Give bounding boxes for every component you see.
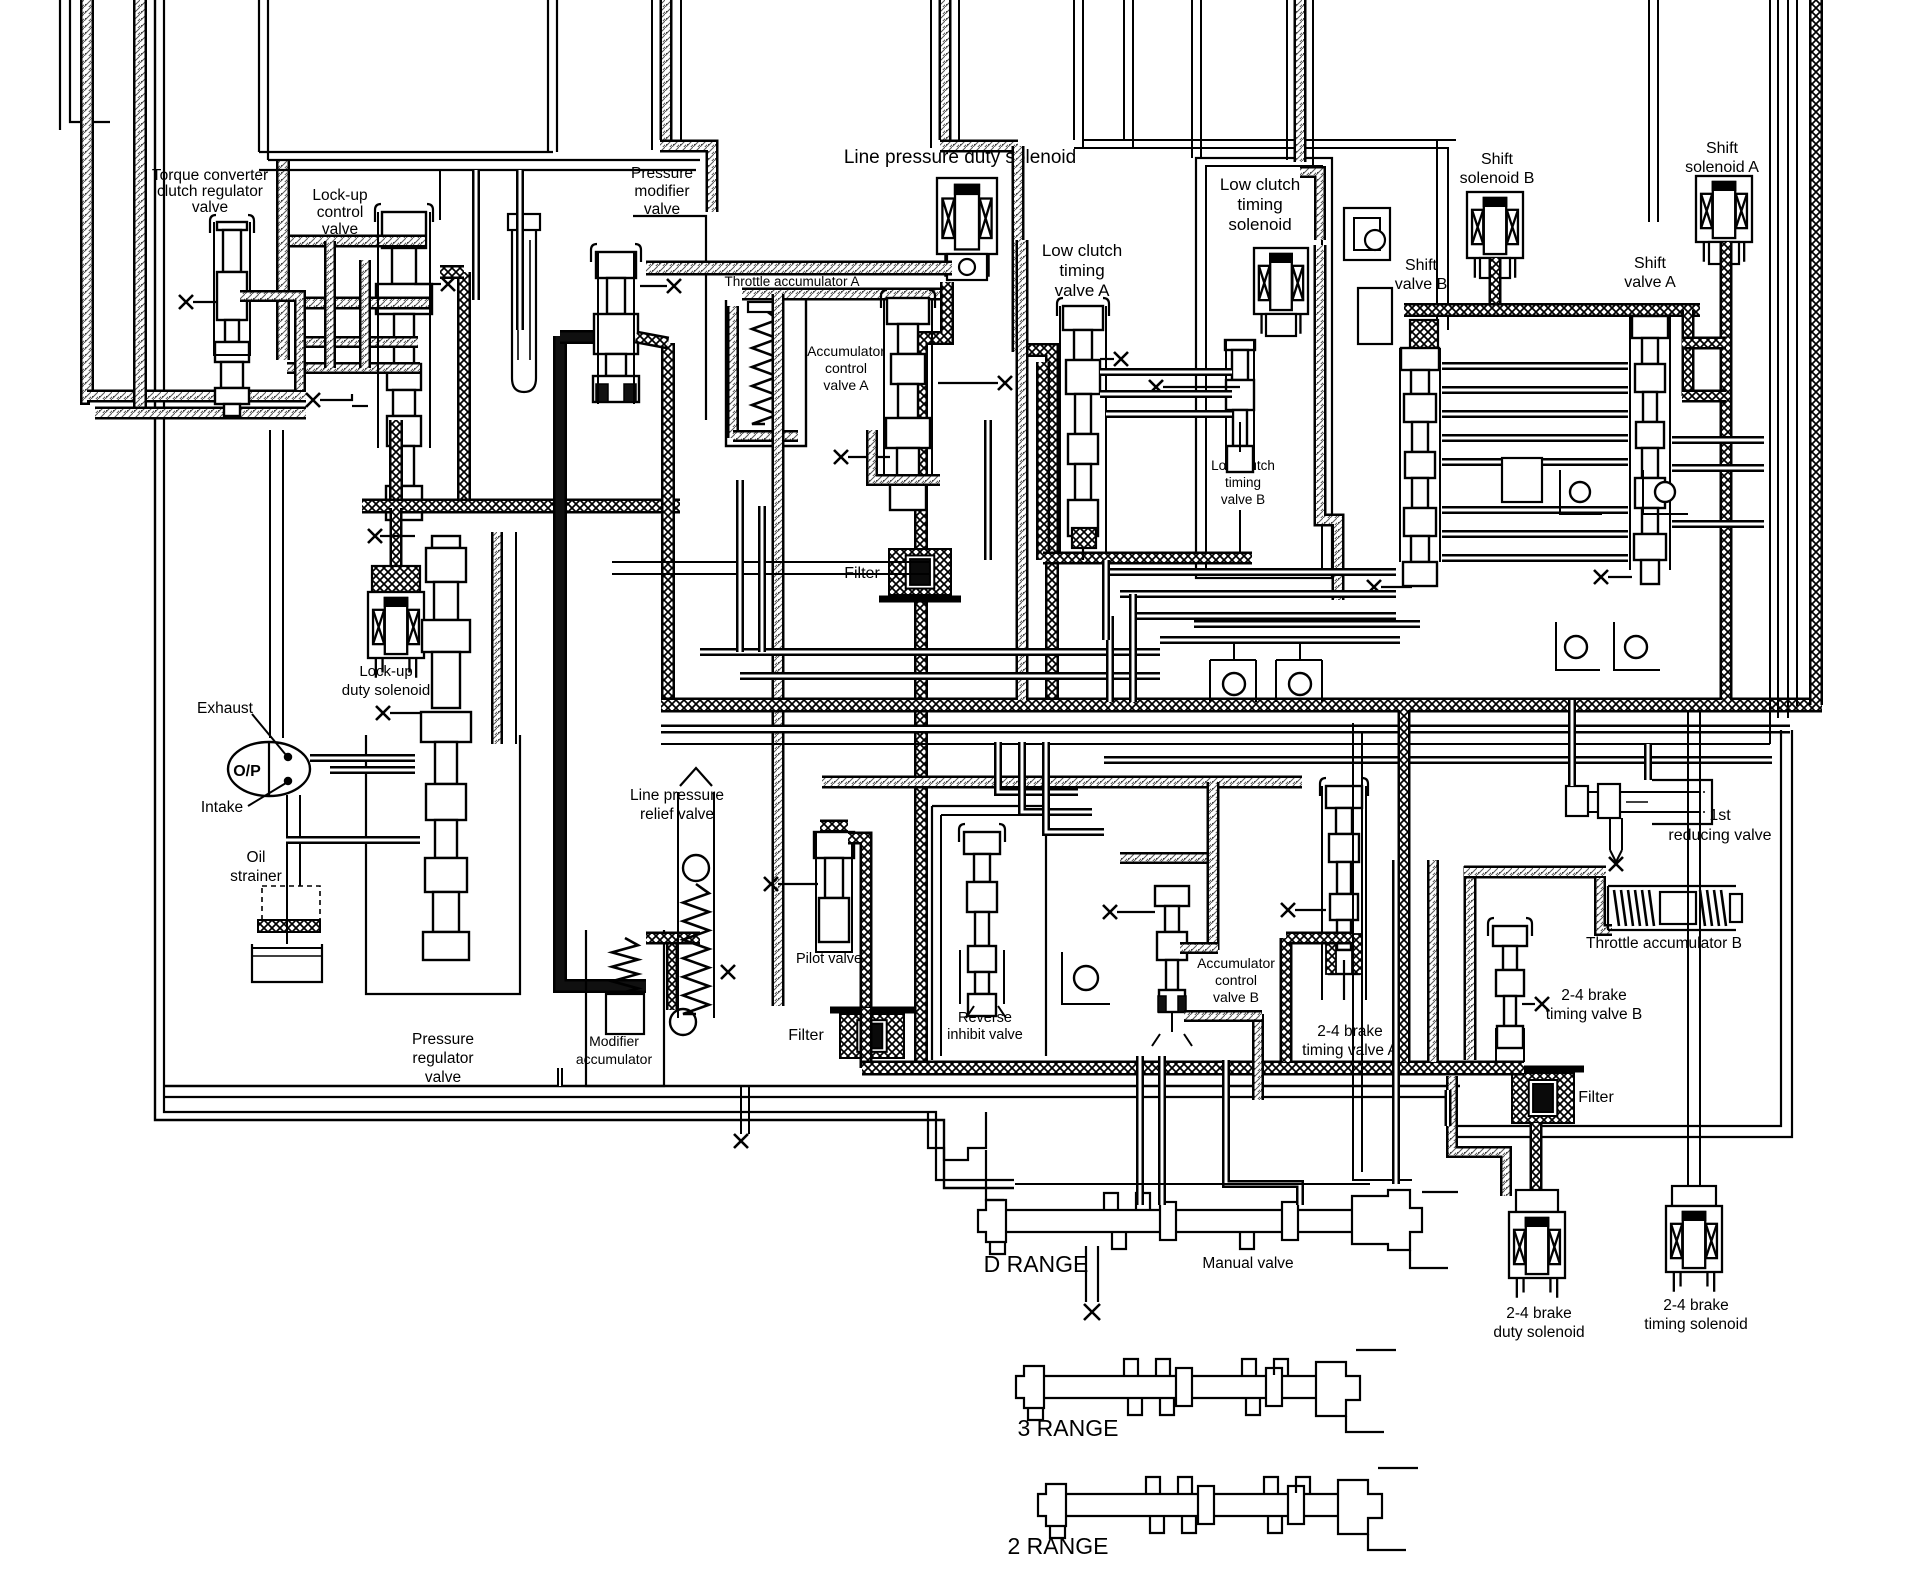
- pipe into duty solenoid top: [390, 560, 403, 576]
- pipe below top rail b: [472, 170, 480, 300]
- x mark below frame left: [734, 1134, 748, 1148]
- dark block below valve A: [1072, 528, 1096, 548]
- 2-4 brake duty solenoid fitting: [1516, 1190, 1558, 1212]
- black seat marks pressure modifier valve: [596, 384, 636, 402]
- wire 24A bore R: [1365, 786, 1367, 1000]
- pipe drop right of solenoid: [1012, 146, 1025, 352]
- pipe filter down: [860, 1008, 873, 1068]
- x mark right of acc valve A: [998, 376, 1012, 390]
- accumulator A piston cap: [748, 302, 782, 312]
- wire below lockup a: [282, 430, 284, 738]
- reverse inhibit bottom flare: [966, 1006, 1006, 1018]
- pipe riser into lock-up cluster: [276, 160, 290, 360]
- solenoid: 2-4 brake timing solenoid: [1666, 1206, 1722, 1292]
- pipe light vertical x1470: [1464, 866, 1477, 1060]
- svg-text:Throttle accumulator A: Throttle accumulator A: [724, 274, 859, 289]
- dark block above lock-up duty solenoid: [372, 566, 420, 592]
- pipe dark band y558: [1043, 552, 1252, 565]
- spring throttle accumulator A: [752, 310, 778, 424]
- pipe light band y782: [822, 776, 1302, 789]
- wire right frame outer: [1447, 730, 1781, 1126]
- wire ball box 4: [1614, 622, 1660, 670]
- wire pilot frame top a: [612, 561, 930, 563]
- manual valve right block: [1352, 1190, 1422, 1250]
- x mark shift valve B bottom: [1367, 580, 1381, 594]
- pipe left horizontal 2: [95, 407, 306, 420]
- 1st reducing valve right sleeve: [1652, 780, 1712, 824]
- pipe drop to manual valve b: [1158, 1056, 1166, 1205]
- solenoid: line pressure duty solenoid: [937, 178, 997, 277]
- pipe drop into band a: [1106, 616, 1114, 702]
- wire top rail b: [268, 159, 700, 161]
- pipe rung right 2: [1672, 464, 1764, 472]
- pipe rung shift 3: [1442, 410, 1628, 418]
- wire relief sleeve right: [713, 792, 715, 1018]
- pipe rung low c: [1134, 612, 1396, 620]
- wire 2-4B stem b: [1523, 1028, 1525, 1062]
- wire ball6 stem: [1299, 640, 1301, 660]
- pipe dark jog left: [1682, 310, 1695, 396]
- pipe rung lcA 2: [1100, 390, 1232, 398]
- valve: accumulator control valve A spool: [881, 290, 935, 308]
- throttle accumulator B body: [1608, 885, 1736, 887]
- wire top box bottom a: [259, 151, 553, 153]
- wire right frame inner: [1447, 730, 1792, 1137]
- wire ball box reverse: [1062, 952, 1110, 1004]
- pipe center drop a: [736, 480, 744, 652]
- wire pmod bore R: [633, 252, 635, 404]
- small fitting below frame: [928, 1112, 986, 1160]
- pipe dark shift solenoid A drop: [1720, 242, 1733, 700]
- x mark 2-4 brake A: [1281, 903, 1295, 917]
- wire above lockup: [439, 170, 441, 220]
- wire lockup bore L: [377, 212, 379, 448]
- solenoid: shift solenoid A: [1696, 176, 1752, 262]
- pipe elbow low clutch: [1300, 172, 1320, 240]
- check ball circle 5: [1223, 673, 1245, 695]
- valve: 3 RANGE left cap: [1016, 1366, 1044, 1408]
- wire flank riser 945 a: [930, 0, 932, 148]
- svg-text:Manual valve: Manual valve: [1202, 1255, 1293, 1272]
- plug cylinder (accumulator piston): [512, 228, 536, 392]
- pipe stub: [557, 1068, 563, 1086]
- small box between shift valves: [1502, 458, 1542, 502]
- x mark 1st reducing: [1609, 857, 1623, 871]
- valve: reverse inhibit valve spool: [959, 824, 1005, 842]
- valve: torque converter clutch regulator valve spool: [210, 215, 254, 233]
- pipe left horizontal 1: [87, 390, 306, 403]
- pipe rung shift 1: [1442, 362, 1628, 370]
- pipe dark into lock-up duty solenoid: [390, 508, 403, 560]
- wire top box left a: [258, 0, 260, 152]
- pipe dark mod acc top: [646, 932, 700, 945]
- solenoid: 2-4 brake duty solenoid: [1509, 1212, 1565, 1298]
- wire lcA bore R: [1105, 306, 1107, 556]
- wire ballbox5 b: [1255, 660, 1257, 702]
- pipe long dark band y705: [661, 698, 1822, 713]
- pipe lockup run 1: [290, 235, 425, 248]
- valve: low clutch timing valve A spool: [1057, 298, 1109, 316]
- check ball circle reverse area: [1074, 966, 1098, 990]
- wire pump to strainer 2: [299, 795, 301, 886]
- wire ballbox6 c: [1276, 659, 1322, 661]
- pipe lockup run 3: [300, 336, 418, 348]
- valve: 2 RANGE top stub 4: [1296, 1477, 1310, 1493]
- 2 RANGE right step lines: [1368, 1534, 1406, 1550]
- wire right of regulator: [515, 532, 517, 744]
- x exhaust mark tcc valve: [179, 295, 193, 309]
- svg-text:Pilot valve: Pilot valve: [796, 951, 862, 967]
- pipe dark drop x1404: [1398, 710, 1411, 1062]
- box reverse inhibit outer: [932, 805, 1046, 807]
- wire u-tube d: [1132, 0, 1134, 148]
- wire below lockup b: [269, 430, 271, 738]
- svg-text:Filter: Filter: [1578, 1089, 1614, 1106]
- pipe lockup run 2: [296, 297, 430, 310]
- wire u-tube b: [1082, 0, 1084, 148]
- valve: 2 RANGE bottom stub 1: [1150, 1517, 1164, 1533]
- pipe dark elbow top: [440, 265, 464, 279]
- pipe dark vertical x668: [661, 343, 675, 712]
- valve: 2 RANGE top stub 1: [1146, 1477, 1160, 1493]
- manual valve bottom stub 2: [1240, 1233, 1254, 1249]
- manual valve land 2: [1282, 1202, 1298, 1240]
- wire top stub x1658: [1657, 0, 1659, 222]
- pipe lockup vertical b: [359, 260, 371, 368]
- pipe center drop d: [1102, 560, 1110, 640]
- pipe light drop to acc B: [1207, 782, 1220, 950]
- valve: 3 RANGE bottom stub 1: [1128, 1399, 1142, 1415]
- wire drop to low clutch box a: [1191, 0, 1193, 158]
- valve: accumulator control valve B spool: [1155, 886, 1189, 1012]
- wire pump to strainer: [286, 795, 288, 944]
- wire fitting to manual valve: [986, 1150, 1004, 1200]
- wire lcA bore L: [1059, 306, 1061, 556]
- check ball circle 2: [1655, 482, 1675, 502]
- wire lockup bore R: [429, 212, 431, 448]
- wire below band 2: [661, 743, 1770, 745]
- wire drop to low clutch box b: [1200, 0, 1202, 158]
- wire low clutch valve B stem b: [1239, 510, 1241, 560]
- relief valve ball: [683, 855, 709, 881]
- dark blocks 2-4 brake timing valve A: [1326, 934, 1336, 974]
- pipe pump to preg 2: [330, 766, 415, 774]
- solenoid: shift solenoid B: [1467, 192, 1523, 278]
- manual valve bottom stub 1: [1112, 1233, 1126, 1249]
- pipe light acc B inlet: [1600, 878, 1612, 930]
- wire lcB bore R: [1253, 340, 1255, 470]
- pipe accA left wall: [727, 306, 739, 438]
- wire lcB bore L: [1225, 340, 1227, 470]
- wire ball box 2: [1643, 470, 1688, 514]
- x mark acc valve A: [834, 450, 848, 464]
- pipe rung low a: [1106, 568, 1396, 576]
- wire revinh bore L: [959, 950, 961, 1004]
- x mark preg mid: [376, 706, 390, 720]
- pipe light vertical x1022: [1016, 240, 1029, 700]
- wire right col a: [1769, 0, 1771, 744]
- solenoid A stem: [1709, 242, 1739, 264]
- pipe light acc B elbow: [1180, 942, 1218, 954]
- pump dots and callouts: [285, 754, 292, 761]
- 1st reducing valve stem: [1609, 818, 1611, 850]
- valve: shift valve B spool: [1401, 348, 1439, 586]
- pipe dark branch 2: [1682, 390, 1726, 403]
- pipe dark main center drop: [921, 282, 947, 1062]
- wire bottom rail outer: [164, 1085, 1460, 1087]
- pipe rung shift 7: [1442, 530, 1628, 538]
- staircase pipes above reverse valve: [998, 742, 1078, 792]
- solenoid lower fitting: [947, 254, 987, 280]
- oil strainer cup: [252, 944, 322, 982]
- 3 RANGE right block: [1316, 1362, 1360, 1416]
- wire ball box 1: [1560, 470, 1602, 514]
- pipe light band to acc B: [1464, 866, 1606, 879]
- pipe drop to manual valve a: [1136, 1056, 1144, 1205]
- wire ballbox5 a: [1209, 660, 1211, 702]
- wire pmod bore L: [597, 252, 599, 404]
- pipe light acc B drop2: [1252, 1014, 1264, 1100]
- x mark shift valve A bottom: [1594, 570, 1608, 584]
- pipe top elbow a: [940, 140, 1018, 153]
- wire ball box 3: [1556, 622, 1600, 670]
- wire 2-4B stem a: [1495, 1028, 1497, 1062]
- manual valve top stub 1: [1104, 1193, 1118, 1209]
- wire bottom-right frame left b: [1361, 732, 1363, 1172]
- x mark relief valve: [721, 965, 735, 979]
- throttle accumulator B end cap: [1730, 894, 1742, 922]
- pipe rung right 1: [1672, 436, 1764, 444]
- wire manual valve stem a: [1085, 1246, 1087, 1302]
- valve: 3 RANGE neck: [1044, 1375, 1316, 1377]
- wire flank riser 666 a: [651, 0, 653, 150]
- modifier accumulator box: [586, 930, 664, 1086]
- valve: pressure regulator valve lower: [421, 712, 471, 960]
- x mark pressure modifier: [667, 279, 681, 293]
- wire drop to shift valve B: [1436, 140, 1438, 330]
- pipe dark drop to band: [1018, 350, 1052, 708]
- pipe rung shift 5: [1442, 458, 1628, 466]
- x mark 2-4 brake B: [1535, 997, 1549, 1011]
- wire 24A bore L: [1321, 786, 1323, 1000]
- wire ballbox5 c: [1210, 659, 1256, 661]
- x mark lock-up valve lower-left: [306, 393, 320, 407]
- valve: 3 RANGE top stub 1: [1124, 1359, 1138, 1375]
- wire manual valve right step b: [1422, 1191, 1458, 1193]
- wire shift valve A sleeve L: [1629, 316, 1631, 570]
- pipe lockup run 5: [240, 296, 300, 390]
- valve: 3 RANGE land 2: [1266, 1368, 1282, 1406]
- wire manual valve right step a: [1410, 1250, 1448, 1268]
- pipe center drop b: [758, 506, 766, 652]
- wire u-tube c: [1123, 0, 1125, 140]
- wire preg top left: [380, 535, 415, 537]
- spring line pressure relief valve: [683, 884, 709, 1014]
- pipe dark band 2-4A: [1286, 932, 1352, 945]
- pipe dark drop 2-4A: [1280, 938, 1293, 1062]
- svg-text:3 RANGE: 3 RANGE: [1018, 1415, 1119, 1441]
- pipe into 1st reducing 2: [1644, 744, 1652, 780]
- x mark low clutch A right2: [1149, 380, 1163, 394]
- valve: 3 RANGE top stub 2: [1156, 1359, 1170, 1375]
- wire right col b: [1777, 0, 1779, 718]
- wire pilot frame top b: [612, 573, 930, 575]
- pipe left riser 1: [87, 0, 90, 398]
- pipe below top rail a: [516, 170, 524, 330]
- pipe into 1st reducing: [1568, 700, 1576, 786]
- valve: 2-4 brake timing valve B spool: [1488, 918, 1532, 936]
- box low clutch timing inner: [1206, 166, 1322, 570]
- solenoid: lock-up duty solenoid: [368, 592, 424, 678]
- oil strainer hatch bar: [258, 920, 320, 932]
- filter (bottom right): [1502, 1069, 1584, 1123]
- pipe dark band y1068: [862, 1061, 1524, 1076]
- wire top box left b: [267, 0, 269, 160]
- wire low clutch valve B stem a: [1239, 422, 1241, 452]
- x mark lock-up valve right: [441, 277, 455, 291]
- valve: 1st reducing valve (horizontal): [1566, 786, 1588, 816]
- box low clutch timing outer: [1196, 158, 1332, 578]
- pipe riser above modifier: [660, 0, 673, 140]
- pipe rung low b: [1120, 590, 1396, 598]
- dark block at shift valve B top: [1410, 320, 1438, 348]
- wire accB stem: [1171, 1012, 1173, 1032]
- wire ballbox6 a: [1275, 660, 1277, 702]
- small component above shift valve B: [1344, 208, 1390, 260]
- pipe dark band shift y310: [1404, 303, 1700, 317]
- pipe black top branch: [560, 330, 636, 344]
- valve: pressure modifier valve spool: [591, 244, 641, 262]
- x mark preg top: [368, 529, 382, 543]
- oil strainer dashed box: [262, 886, 320, 926]
- wire flank riser 945 b: [958, 0, 960, 140]
- wire ball5 stem: [1233, 640, 1235, 660]
- wire top-left stub b: [70, 0, 110, 122]
- wire 2-4A stem: [1343, 960, 1345, 1000]
- pipe dark from shift solenoid B: [1489, 258, 1502, 310]
- svg-text:Intake: Intake: [201, 799, 243, 816]
- pipe pump to preg: [310, 754, 415, 762]
- x mark low clutch A right: [1114, 352, 1128, 366]
- solenoid stem low clutch: [1266, 314, 1296, 336]
- wire to 2-4 timing solenoid a: [1687, 712, 1689, 1198]
- wire u-tube a: [1073, 0, 1075, 140]
- valve: 2 RANGE bottom stub 2: [1182, 1517, 1196, 1533]
- 3 RANGE right step lines: [1346, 1416, 1384, 1432]
- check ball circle 1: [1570, 482, 1590, 502]
- pipe drop into band b: [1129, 594, 1137, 702]
- pipe throttle accumulator A band: [646, 261, 952, 276]
- valve: 2-4 brake timing valve A spool: [1320, 778, 1368, 796]
- solenoid B stem: [1480, 258, 1510, 278]
- valve: lock-up control valve spool: [375, 204, 433, 222]
- pipe accA bottom wall: [733, 430, 798, 442]
- svg-text:Throttle accumulator B: Throttle accumulator B: [1586, 935, 1742, 952]
- wire shift valve A sleeve R: [1669, 316, 1671, 570]
- pipe riser low clutch: [1294, 0, 1307, 162]
- manual valve top stub 2: [1136, 1193, 1150, 1209]
- valve: shift valve A spool: [1632, 316, 1668, 584]
- pipe light drop right of low clutch box: [1320, 245, 1338, 600]
- wire relief valve peak: [680, 768, 712, 786]
- 2-4 brake timing solenoid fitting: [1672, 1186, 1716, 1206]
- filter (center): [830, 1010, 914, 1058]
- pipe dark below lock-up valve: [389, 420, 403, 508]
- pipe center rung b: [740, 672, 1160, 680]
- wire shift valve B sleeve L: [1399, 348, 1401, 562]
- wire bottom-right frame left a: [1353, 723, 1412, 1180]
- pipe acc A bottom elbow: [872, 430, 940, 480]
- wire bottom rail inner: [164, 1097, 1452, 1120]
- check ball circle 3: [1565, 636, 1587, 658]
- pipe stub 2: [1445, 1090, 1452, 1126]
- wire pressure modifier box: [633, 216, 706, 420]
- pipe rung lcA 1: [1100, 368, 1232, 376]
- wire flank riser 1300 b: [1312, 0, 1314, 166]
- pipe lockup run 4: [287, 362, 420, 374]
- valve: low clutch timing valve B spool: [1225, 340, 1255, 472]
- spring modifier accumulator: [612, 938, 638, 1010]
- svg-text:Exhaust: Exhaust: [197, 700, 254, 717]
- manual valve left cap: [978, 1200, 1006, 1242]
- wire relief sleeve left: [677, 792, 679, 1018]
- valve: 3 RANGE bottom stub 2: [1160, 1399, 1174, 1415]
- svg-text:Filter: Filter: [788, 1027, 824, 1044]
- valve: 2 RANGE land 1: [1198, 1486, 1214, 1524]
- wire outer frame left/bottom: [155, 0, 1014, 1188]
- wire accA bore L: [883, 298, 885, 478]
- pipe dark band y506: [362, 499, 680, 514]
- wire right col c: [1787, 0, 1789, 718]
- valve: pressure regulator valve upper: [422, 536, 470, 708]
- pipe dark drop right of lock-up valve: [457, 272, 471, 506]
- pipe center drop c: [984, 420, 992, 560]
- pipe strainer to preg: [286, 836, 420, 844]
- pump divider: [268, 742, 270, 796]
- pipe above ball boxes: [1160, 636, 1400, 644]
- wire above manual valve: [1015, 1183, 1370, 1185]
- box reverse inhibit inner: [941, 814, 1038, 816]
- filter (top center): [879, 549, 961, 599]
- pipe riser right of duty solenoid: [939, 0, 952, 140]
- wire top stub x1649: [1648, 0, 1650, 222]
- 2 RANGE right block: [1338, 1480, 1382, 1534]
- valve: 3 RANGE top stub 3: [1242, 1359, 1256, 1375]
- pipe pilot top dark: [820, 820, 848, 833]
- svg-text:2 RANGE: 2 RANGE: [1008, 1533, 1109, 1559]
- pipe right dark riser: [1809, 0, 1823, 705]
- solenoid: low clutch timing solenoid: [1254, 248, 1308, 334]
- plug cylinder top cap: [508, 214, 540, 230]
- pipe rung shift 4: [1442, 434, 1628, 442]
- valve: 3 RANGE bottom stub 3: [1246, 1399, 1260, 1415]
- pipe band 2: [742, 288, 952, 301]
- valve: 2 RANGE top stub 2: [1178, 1477, 1192, 1493]
- wire 1st reducing centerline: [1626, 801, 1648, 803]
- pipe light drop x1433: [1427, 860, 1439, 1062]
- pipe center rung a: [700, 648, 1160, 656]
- wire accA bore R: [931, 298, 933, 478]
- valve: 3 RANGE land 1: [1176, 1368, 1192, 1406]
- pipe left riser 2: [133, 0, 147, 414]
- check ball left of shift valve B: [1358, 288, 1392, 344]
- pipe rung shift 6: [1442, 506, 1628, 514]
- wire manual valve stem b: [1097, 1246, 1099, 1302]
- pipe light right of regulator: [491, 532, 503, 744]
- modifier accumulator piston: [606, 994, 644, 1034]
- pipe rail y624: [1194, 620, 1420, 628]
- x mark pilot valve: [764, 877, 778, 891]
